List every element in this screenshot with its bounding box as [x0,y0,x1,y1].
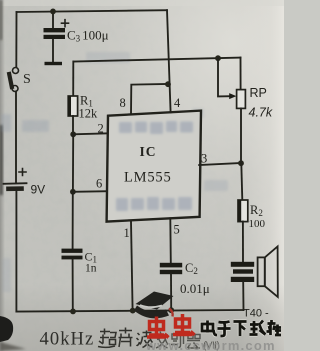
wire: pin 8 up and right to pin4 line [131,84,168,114]
wire: C2 to bottom rail [170,274,172,310]
node junction pin8 / pin4 line [165,81,171,87]
node junction C2 / rail [168,307,174,313]
svg-text:0.01μ: 0.01μ [180,281,210,296]
svg-text:www.ccworm.com: www.ccworm.com [145,338,276,351]
battery B 9V [4,182,27,185]
wire: battery minus down to bottom rail [15,191,17,312]
bleed-through ghost rows over IC [116,121,193,211]
caption char 波 [137,331,153,348]
capacitor C3 [44,28,66,39]
char 载 [250,321,266,335]
wire: left vertical from top rail to switch [15,12,17,67]
svg-text:IC: IC [140,144,157,159]
svg-text:3: 3 [201,152,207,166]
node junction pin6 [70,189,76,195]
svg-text:100: 100 [249,218,266,230]
svg-text:2: 2 [98,122,104,136]
wire: R2 to transducer [242,222,244,262]
wire: pin 2 [73,133,108,134]
svg-text:6: 6 [96,177,102,191]
wire: node to pin6 node [72,134,74,192]
svg-text:S: S [23,72,31,87]
RP wiper arrow [229,93,236,99]
watermark 虫 (second) red [173,314,195,335]
wire: C3 bottom lead [52,39,54,62]
wire: C1 to bottom rail [72,259,74,311]
node junction second rail / RP feed [215,55,221,61]
wire: pin 6 [73,190,108,193]
caption char 声 [119,328,133,348]
wire: C3 top lead [52,11,54,28]
char 子 [218,322,231,337]
svg-text:RP: RP [250,86,267,100]
wire: second rail down to R1 [72,62,74,97]
wire: switch to battery [15,92,17,183]
svg-text:4: 4 [174,96,181,110]
node junction pin1 / rail [130,308,136,314]
svg-text:LM555: LM555 [124,170,172,186]
svg-text:1: 1 [124,226,130,240]
potentiometer RP [237,90,246,109]
svg-text:40kHz: 40kHz [40,330,95,350]
watermark text 电子下载站 (black, drawn) [202,320,281,336]
node junction C1 / bottom rail [70,309,76,315]
capacitor C1 [62,249,83,260]
wire: top rail down to pin 4 [167,10,171,112]
wire: second rail corner down to RP top [240,58,242,90]
node junction top rail / C3 [50,9,56,15]
bottom-left dark blob [0,316,13,342]
bleed-through ghost text (page backside) [1,52,228,292]
slightly darker lower band [0,284,284,351]
watermark graduation cap [134,292,174,319]
transducer T40 piezo plates [231,262,254,282]
svg-text:1n: 1n [85,263,97,275]
wire: transducer to bottom rail [242,282,244,310]
wire: pin6 node down to C1 [72,192,74,249]
wire: RP wiper feed [218,58,231,96]
switch S [13,68,19,74]
op IC box LM555 [107,111,201,222]
resistor R2 [238,200,248,222]
svg-text:12k: 12k [79,107,99,121]
caption char 超 [98,329,116,348]
wire: second rail (R1 top to RP) [74,58,241,62]
wire: pin3 node down to R2 [241,163,242,200]
wire: pin 1 down [131,221,133,310]
left scan edge [0,0,5,351]
wire: top rail [17,10,168,12]
svg-text:4.7k: 4.7k [249,106,273,120]
svg-text:9V: 9V [31,183,46,197]
node junction pin3 / RP-R2 [238,160,244,166]
svg-text:8: 8 [120,96,126,110]
char 电 [202,321,217,336]
resistor R1 [68,96,77,116]
char 站 [267,320,282,335]
wire: bottom rail [16,310,243,312]
C3 bottom terminal bar [45,62,63,65]
wire: pin 5 down to C2 [169,218,172,262]
capacitor C2 [160,263,182,274]
node junction R1 / pin2 [70,131,76,137]
component labels (scanned serif look) [23,28,273,320]
svg-text:5: 5 [174,223,180,237]
svg-text:T40-: T40- [243,308,269,320]
wire: pin 3 [199,163,241,165]
wire: R1 to pin2 node [72,116,74,134]
polarity + of C3 [62,20,69,27]
caption 发射器(VII) gray [155,332,200,349]
svg-text:C3100μ: C3100μ [67,28,109,44]
polarity + of battery [19,169,26,176]
char 下 [234,322,247,337]
speaker horn of T40 [258,257,265,286]
wire: RP bottom to pin3 node [240,108,242,163]
watermark 虫 (first) red [147,317,169,338]
